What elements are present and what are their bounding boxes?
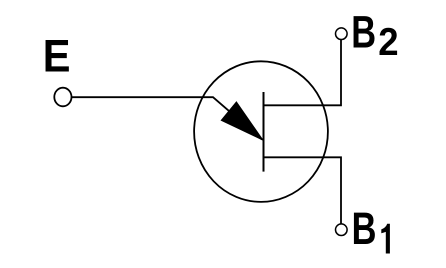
svg-text:B: B bbox=[352, 205, 377, 254]
svg-text:E: E bbox=[43, 32, 71, 82]
svg-text:B: B bbox=[351, 8, 376, 57]
svg-text:2: 2 bbox=[378, 21, 398, 64]
